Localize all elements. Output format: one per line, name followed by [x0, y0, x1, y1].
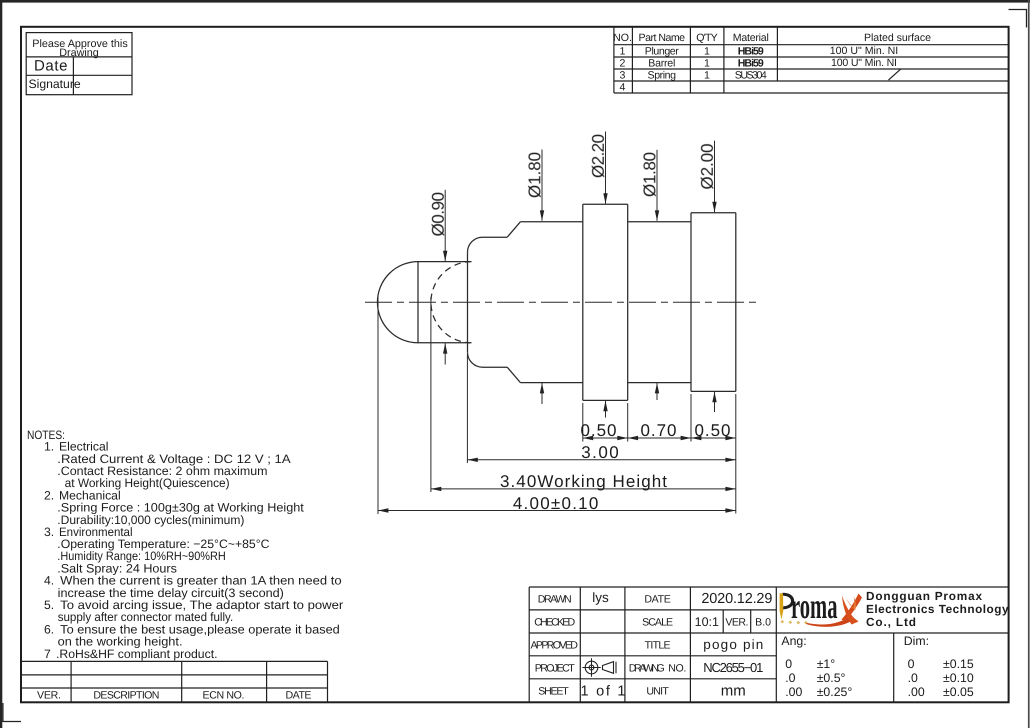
svg-text:Ø1.80: Ø1.80 [640, 152, 659, 197]
svg-text:Plunger: Plunger [645, 46, 679, 58]
svg-text:SUS304: SUS304 [735, 70, 767, 82]
svg-text:1: 1 [704, 46, 710, 58]
svg-text:.00: .00 [908, 685, 925, 699]
svg-text:0.50: 0.50 [581, 421, 617, 440]
svg-text:2.: 2. [44, 488, 54, 502]
svg-text:Ø2.00: Ø2.00 [698, 144, 717, 190]
svg-text:±0.25°: ±0.25° [817, 685, 853, 699]
svg-text:5.: 5. [44, 598, 54, 612]
svg-text:PROJECT: PROJECT [535, 663, 576, 675]
svg-text:pogo pin: pogo pin [703, 637, 763, 652]
svg-text:Ø2.20: Ø2.20 [589, 134, 608, 178]
svg-text:1: 1 [704, 58, 710, 70]
svg-text:3.00: 3.00 [581, 443, 619, 462]
svg-text:mm: mm [721, 683, 746, 700]
svg-text:Ø0.90: Ø0.90 [429, 192, 448, 237]
svg-text:0.50: 0.50 [695, 421, 731, 440]
svg-text:SCALE: SCALE [642, 617, 673, 629]
svg-text:DRAWN: DRAWN [538, 594, 572, 606]
svg-text:SHEET: SHEET [538, 686, 569, 698]
svg-text:Part Name: Part Name [639, 32, 686, 44]
svg-text:6.: 6. [44, 622, 54, 636]
svg-text:Dim:: Dim: [904, 634, 929, 648]
svg-text:±0.15: ±0.15 [943, 657, 974, 671]
svg-text:DATE: DATE [644, 594, 671, 606]
svg-text:Co., Ltd: Co., Ltd [866, 615, 916, 629]
svg-text:3: 3 [620, 70, 626, 82]
svg-text:NO.: NO. [613, 32, 632, 44]
svg-text:Spring: Spring [648, 70, 677, 82]
svg-text:HBi59: HBi59 [738, 46, 764, 58]
svg-text:3.40Working Height: 3.40Working Height [500, 472, 667, 491]
svg-text:UNIT: UNIT [646, 686, 669, 698]
svg-text:1: 1 [704, 70, 710, 82]
svg-text:DESCRIPTION: DESCRIPTION [93, 690, 159, 702]
svg-text:2020.12.29: 2020.12.29 [701, 591, 772, 607]
svg-text:Material: Material [733, 32, 769, 44]
svg-text:4.: 4. [44, 574, 54, 588]
svg-text:1 of 1: 1 of 1 [581, 684, 626, 700]
svg-text:VER.: VER. [37, 690, 61, 702]
svg-text:CHECKED: CHECKED [534, 617, 575, 629]
svg-text:NO.: NO. [668, 663, 686, 675]
svg-text:0.70: 0.70 [641, 421, 677, 440]
svg-text:B.0: B.0 [755, 617, 771, 629]
svg-text:2: 2 [620, 58, 626, 70]
svg-text:±0.10: ±0.10 [943, 671, 974, 685]
svg-text:Signature: Signature [29, 77, 81, 91]
svg-text:roma: roma [791, 586, 838, 626]
svg-text:Ang:: Ang: [781, 634, 806, 648]
svg-text:Ø1.80: Ø1.80 [525, 152, 544, 198]
svg-text:lys: lys [592, 590, 609, 605]
svg-text:Date: Date [34, 58, 68, 75]
svg-text:±0.05: ±0.05 [943, 685, 974, 699]
svg-text:4: 4 [620, 82, 626, 94]
svg-text:0: 0 [908, 657, 915, 671]
svg-text:±1°: ±1° [817, 657, 836, 671]
svg-text:NC2655−01: NC2655−01 [703, 660, 763, 675]
svg-text:TITLE: TITLE [645, 640, 671, 652]
svg-text:Electronics Technology: Electronics Technology [866, 602, 1009, 616]
svg-text:.00: .00 [785, 685, 802, 699]
svg-text:7: 7 [44, 647, 51, 661]
svg-text:Dongguan Promax: Dongguan Promax [866, 589, 982, 603]
svg-text:100 U" Min. NI: 100 U" Min. NI [831, 57, 897, 69]
svg-text:APPROVED: APPROVED [530, 640, 578, 652]
svg-text:Plated surface: Plated surface [864, 32, 931, 44]
svg-text:1.: 1. [44, 440, 54, 454]
svg-text:ECN NO.: ECN NO. [203, 690, 245, 702]
svg-text:DATE: DATE [286, 690, 312, 702]
svg-text:3.: 3. [44, 525, 54, 539]
svg-text:Q'TY: Q'TY [696, 32, 718, 44]
svg-text:.0: .0 [908, 671, 918, 685]
svg-text:HBi59: HBi59 [738, 58, 764, 70]
svg-text:4.00±0.10: 4.00±0.10 [513, 494, 599, 513]
svg-text:1: 1 [620, 46, 626, 58]
svg-text:DRAWING: DRAWING [629, 663, 665, 675]
svg-text:.0: .0 [785, 671, 795, 685]
svg-text:10:1: 10:1 [695, 615, 719, 629]
svg-text:±0.5°: ±0.5° [817, 671, 846, 685]
svg-text:.RoHs&HF compliant product.: .RoHs&HF compliant product. [56, 647, 218, 661]
svg-text:0: 0 [785, 657, 792, 671]
svg-text:Barrel: Barrel [648, 58, 675, 70]
svg-text:VER.: VER. [725, 617, 748, 629]
svg-text:100 U" Min. NI: 100 U" Min. NI [830, 45, 899, 57]
